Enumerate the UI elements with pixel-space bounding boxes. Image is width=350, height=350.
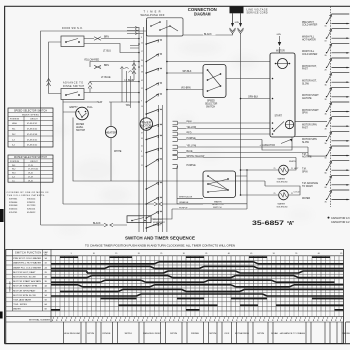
advance to rinse switch SW2 bbox=[61, 89, 84, 100]
svg-text:SWITCH: SWITCH bbox=[206, 107, 215, 109]
svg-text:LT. BLUE: LT. BLUE bbox=[101, 77, 111, 79]
timer terminal dots bbox=[138, 37, 143, 167]
left edge lower mark bbox=[0, 312, 3, 319]
svg-text:SPIN: SPIN bbox=[87, 333, 95, 335]
svg-text:65: 65 bbox=[340, 253, 342, 255]
svg-text:NO.: NO. bbox=[45, 254, 49, 256]
svg-text:POSITION: POSITION bbox=[10, 119, 20, 121]
svg-text:SPIN: SPIN bbox=[125, 333, 133, 335]
wire wls left bbox=[63, 100, 76, 205]
svg-text:17-19: 17-19 bbox=[28, 177, 33, 179]
svg-text:PRE SPOT: PRE SPOT bbox=[302, 22, 314, 24]
svg-text:T.M. AGITATE: T.M. AGITATE bbox=[13, 299, 32, 302]
interval number cells bbox=[56, 311, 340, 317]
wire purple lower bbox=[172, 206, 247, 209]
svg-text:YELLOW: YELLOW bbox=[187, 127, 197, 129]
svg-text:19-42: 19-42 bbox=[28, 173, 33, 175]
svg-text:RINSE SWITCH: RINSE SWITCH bbox=[63, 86, 84, 88]
wire selector right riser bbox=[236, 169, 248, 209]
svg-text:WASH SPEED: WASH SPEED bbox=[22, 113, 39, 116]
wire bundle timer to motor area bbox=[173, 120, 309, 168]
momentary switch bbox=[127, 216, 151, 223]
left edge registration mark bbox=[0, 209, 4, 222]
svg-text:SERVICE CORD: SERVICE CORD bbox=[247, 12, 268, 14]
svg-text:MOTOR HOT, SLOW: MOTOR HOT, SLOW bbox=[13, 277, 36, 279]
svg-text:55: 55 bbox=[295, 253, 297, 255]
svg-text:START: START bbox=[275, 115, 283, 118]
svg-text:45: 45 bbox=[250, 253, 252, 255]
svg-text:4149052: 4149052 bbox=[27, 212, 36, 214]
label + capacitor bbox=[260, 139, 293, 147]
svg-text:SPEED SELECTOR SWITCH: SPEED SELECTOR SWITCH bbox=[14, 110, 47, 112]
svg-text:51: 51 bbox=[141, 145, 143, 147]
note capacitor bbox=[328, 217, 350, 224]
faint scan noise bbox=[49, 41, 312, 247]
timer contact 1A bbox=[302, 14, 349, 28]
door switch SW1 bbox=[61, 36, 84, 47]
wire plug leads with arrows bbox=[231, 13, 242, 27]
svg-text:21: 21 bbox=[291, 168, 293, 170]
svg-text:BRN: BRN bbox=[104, 37, 109, 39]
wire brn upper bbox=[84, 37, 139, 41]
label interval number bbox=[29, 318, 50, 321]
svg-text:20: 20 bbox=[138, 253, 140, 255]
svg-text:POSITION: POSITION bbox=[10, 161, 20, 163]
svg-text:5B: 5B bbox=[325, 158, 327, 160]
svg-text:8: 8 bbox=[141, 151, 142, 153]
svg-text:CIRCUIT: CIRCUIT bbox=[30, 119, 39, 121]
svg-text:BLUE: BLUE bbox=[187, 151, 193, 153]
svg-text:PURPLE: PURPLE bbox=[187, 165, 197, 167]
sequence table frame bbox=[6, 250, 344, 344]
wire solenoid hot return bbox=[288, 158, 296, 171]
svg-text:GRN: GRN bbox=[277, 34, 282, 36]
table header bbox=[9, 251, 49, 292]
svg-text:FULL: FULL bbox=[87, 106, 94, 109]
label water solenoid cold bbox=[277, 203, 289, 209]
svg-text:47-48 47-42: 47-48 47-42 bbox=[27, 123, 37, 125]
svg-text:17-19 19-42: 17-19 19-42 bbox=[28, 169, 38, 171]
svg-text:5: 5 bbox=[71, 253, 72, 255]
wire yellow-red bbox=[84, 60, 139, 67]
label line voltage service cord bbox=[247, 9, 268, 15]
svg-text:WASH FILL: WASH FILL bbox=[302, 50, 315, 53]
svg-text:WASH FILL COLD WATER: WASH FILL COLD WATER bbox=[13, 266, 42, 269]
svg-text:WATER: WATER bbox=[278, 203, 286, 206]
wire motor hot feed bbox=[166, 61, 270, 63]
svg-text:WASH FILL HOT WATER: WASH FILL HOT WATER bbox=[13, 262, 42, 265]
svg-text:MOTOR START SPIN: MOTOR START SPIN bbox=[13, 285, 38, 288]
svg-text:3298211: 3298211 bbox=[27, 202, 36, 204]
svg-text:17: 17 bbox=[141, 51, 143, 53]
svg-text:T.M.: T.M. bbox=[302, 169, 307, 171]
svg-text:CAPACITOR 1/2: CAPACITOR 1/2 bbox=[331, 221, 350, 224]
svg-text:TAN: TAN bbox=[126, 104, 131, 107]
svg-text:SPEED: SPEED bbox=[207, 101, 215, 103]
svg-text:60: 60 bbox=[318, 253, 320, 255]
svg-text:44: 44 bbox=[141, 138, 143, 140]
timer contact 3B bbox=[302, 87, 349, 101]
svg-text:WASH-REGL RESET: WASH-REGL RESET bbox=[143, 332, 162, 335]
svg-text:CAPACITOR 1/3: CAPACITOR 1/3 bbox=[331, 217, 350, 220]
part number 35-6857 A bbox=[252, 220, 295, 227]
svg-text:MOTOR SPIN FAST: MOTOR SPIN FAST bbox=[13, 289, 37, 292]
wire white-blue bbox=[177, 197, 203, 199]
label speed selector switch bbox=[205, 101, 218, 109]
wire solenoid cold return bbox=[265, 181, 300, 195]
wire orn-blk bbox=[240, 97, 270, 100]
timer contact 4B bbox=[302, 117, 349, 131]
svg-text:10: 10 bbox=[93, 253, 95, 255]
svg-text:YELLOW: YELLOW bbox=[187, 146, 197, 148]
label timer wash-push off bbox=[141, 10, 165, 17]
svg-text:MOTOR START: MOTOR START bbox=[302, 109, 319, 112]
svg-text:“A”: “A” bbox=[287, 221, 295, 227]
svg-text:MOTOR SPIN: MOTOR SPIN bbox=[302, 125, 317, 127]
svg-text:RED: RED bbox=[187, 133, 192, 135]
svg-text:T.M.: T.M. bbox=[302, 154, 307, 156]
svg-text:GRN: GRN bbox=[235, 22, 240, 24]
table row lines bbox=[6, 260, 344, 306]
wire brn lower with connector bbox=[84, 65, 139, 92]
svg-text:AGITATE: AGITATE bbox=[302, 97, 312, 100]
svg-text:WH-BLK: WH-BLK bbox=[183, 71, 192, 73]
svg-text:LINE VOLTAGE: LINE VOLTAGE bbox=[247, 9, 268, 12]
svg-text:MOTOR HOT, FAST: MOTOR HOT, FAST bbox=[13, 271, 37, 274]
svg-text:MOMENTARY: MOMENTARY bbox=[153, 221, 166, 224]
timing grid columns bbox=[56, 256, 340, 311]
svg-text:DIAGRAM: DIAGRAM bbox=[194, 12, 211, 18]
timer sequence waveforms bbox=[51, 257, 344, 310]
svg-text:HOT WATER: HOT WATER bbox=[302, 38, 316, 41]
svg-text:SPIN: SPIN bbox=[209, 333, 217, 335]
svg-text:SLOW: SLOW bbox=[302, 142, 310, 144]
svg-text:PURPLE: PURPLE bbox=[187, 138, 197, 140]
svg-text:FAST: FAST bbox=[302, 126, 308, 129]
wire neutral down from plug bbox=[240, 34, 242, 196]
wire rinse sw out bbox=[84, 82, 139, 93]
svg-text:SOLENOID: SOLENOID bbox=[277, 206, 289, 208]
svg-text:WATER SELECTOR SWITCH: WATER SELECTOR SWITCH bbox=[14, 156, 47, 159]
wire solenoid hot feed bbox=[240, 168, 293, 171]
bottom right partial box bbox=[346, 322, 350, 344]
svg-text:19-42: 19-42 bbox=[28, 180, 33, 182]
wire wls bottom bbox=[73, 118, 265, 182]
wire black bottom bbox=[41, 222, 127, 227]
svg-text:3296464: 3296464 bbox=[9, 202, 18, 204]
label advance to rinse switch bbox=[63, 82, 84, 88]
svg-text:3-4: 3-4 bbox=[12, 145, 15, 147]
svg-text:T.M. ADVANCE: T.M. ADVANCE bbox=[302, 182, 318, 185]
svg-text:3260114: 3260114 bbox=[27, 209, 36, 211]
wire yellow-blue drop to tm contact bbox=[308, 147, 327, 156]
svg-text:WATER: WATER bbox=[76, 123, 84, 126]
timer contact bus dashed bbox=[330, 6, 332, 207]
wire solenoid cold feed bbox=[240, 193, 293, 196]
svg-text:3097361: 3097361 bbox=[9, 199, 18, 201]
timer line switch box bbox=[147, 18, 184, 36]
wire door feed bbox=[47, 42, 61, 94]
svg-text:45: 45 bbox=[141, 80, 143, 82]
svg-text:17-19: 17-19 bbox=[28, 165, 33, 167]
timer contact 1B bbox=[302, 29, 349, 43]
svg-text:38: 38 bbox=[141, 71, 143, 73]
svg-text:COLD WATER: COLD WATER bbox=[302, 24, 318, 27]
water selector switch box bbox=[203, 171, 236, 198]
timer contact 6B bbox=[302, 175, 349, 189]
svg-text:COLD: COLD bbox=[294, 191, 300, 193]
svg-text:3B: 3B bbox=[325, 99, 327, 101]
svg-text:TO WASH: TO WASH bbox=[302, 185, 313, 188]
svg-text:WHITE-BLUE: WHITE-BLUE bbox=[179, 197, 193, 199]
timer contact 5B bbox=[302, 146, 349, 160]
svg-text:SELECTOR: SELECTOR bbox=[205, 104, 218, 106]
svg-text:37: 37 bbox=[141, 132, 143, 134]
svg-text:HIGH: HIGH bbox=[12, 123, 17, 125]
svg-text:4314761: 4314761 bbox=[9, 212, 18, 214]
motor M1 box bbox=[270, 53, 295, 137]
timer contact 4A bbox=[302, 102, 349, 116]
svg-text:15: 15 bbox=[115, 253, 117, 255]
svg-text:WHITE: WHITE bbox=[114, 151, 122, 153]
water solenoid hot bbox=[279, 161, 300, 175]
svg-text:HEAT: HEAT bbox=[97, 101, 104, 104]
svg-text:35-6857: 35-6857 bbox=[252, 220, 285, 227]
water selector table bbox=[8, 155, 53, 182]
svg-text:SPIN: SPIN bbox=[170, 333, 178, 335]
svg-text:47-48 47-42: 47-48 47-42 bbox=[27, 145, 37, 147]
svg-text:52: 52 bbox=[141, 88, 143, 90]
timer contact 3A bbox=[302, 73, 349, 87]
svg-text:MID-OF-ST: MID-OF-ST bbox=[153, 219, 164, 221]
svg-text:2-3: 2-3 bbox=[12, 139, 15, 141]
svg-text:MOTOR SPIN: MOTOR SPIN bbox=[302, 139, 317, 141]
label empty / full bbox=[70, 106, 94, 109]
wire orange bbox=[177, 201, 247, 204]
svg-text:AGITATE: AGITATE bbox=[302, 156, 312, 159]
svg-text:1B: 1B bbox=[325, 40, 327, 42]
svg-text:WASH-PUSH OFF: WASH-PUSH OFF bbox=[141, 13, 165, 17]
svg-text:MOTOR HOT,: MOTOR HOT, bbox=[302, 66, 317, 68]
svg-text:MOTOR: MOTOR bbox=[276, 51, 285, 53]
svg-text:16: 16 bbox=[141, 106, 143, 108]
wire wh-blk bbox=[166, 71, 203, 74]
svg-text:WASH FILL: WASH FILL bbox=[302, 36, 315, 39]
wire heat bbox=[63, 100, 139, 126]
svg-text:VIO-BRN: VIO-BRN bbox=[181, 87, 191, 89]
svg-text:LT. BLUE: LT. BLUE bbox=[125, 80, 135, 82]
interval tick strip bbox=[52, 317, 341, 321]
svg-text:SOLENOID: SOLENOID bbox=[277, 181, 289, 183]
svg-text:PAUSE: PAUSE bbox=[342, 332, 350, 335]
title CONNECTION DIAGRAM bbox=[188, 7, 217, 18]
phase separator boxes bbox=[64, 322, 343, 343]
svg-text:2-4: 2-4 bbox=[12, 177, 15, 179]
speed selector switch box bbox=[203, 65, 226, 98]
svg-text:35: 35 bbox=[205, 253, 207, 255]
svg-text:FAST: FAST bbox=[302, 68, 308, 71]
title switch and timer sequence bbox=[125, 236, 195, 241]
timer contact 2A bbox=[302, 43, 349, 57]
svg-text:SWITCH FUNCTION: SWITCH FUNCTION bbox=[15, 253, 41, 255]
svg-text:25: 25 bbox=[274, 168, 276, 170]
phase labels bbox=[64, 332, 350, 335]
svg-text:9: 9 bbox=[141, 100, 142, 102]
svg-text:TIMER CAM: TIMER CAM bbox=[9, 281, 12, 292]
wire capacitor loop bbox=[262, 137, 292, 150]
svg-text:47-48 47-42: 47-48 47-42 bbox=[27, 129, 37, 131]
timer vertical bus lines bbox=[127, 20, 167, 232]
svg-text:EXTRA RINSE: EXTRA RINSE bbox=[235, 332, 250, 335]
svg-text:HEATER: HEATER bbox=[106, 130, 117, 134]
label water selector switch bbox=[212, 200, 224, 209]
svg-text:6B: 6B bbox=[325, 187, 327, 189]
svg-text:PURPLE: PURPLE bbox=[179, 207, 188, 209]
water level switch circle bbox=[76, 107, 89, 120]
speed selector table bbox=[8, 108, 53, 147]
svg-text:RINSE: RINSE bbox=[103, 333, 112, 335]
svg-text:DOOR SW N.O.: DOOR SW N.O. bbox=[62, 28, 83, 30]
svg-text:CIRCUIT: CIRCUIT bbox=[30, 161, 39, 163]
timer contact 7A bbox=[302, 190, 349, 204]
timer contact 2B bbox=[302, 58, 349, 72]
svg-text:47-42 47-48: 47-42 47-48 bbox=[27, 134, 37, 136]
svg-text:25: 25 bbox=[274, 193, 276, 195]
svg-text:THE FOLLOWING PATENTS:: THE FOLLOWING PATENTS: bbox=[7, 194, 45, 197]
svg-text:BRN: BRN bbox=[104, 65, 109, 67]
wire motor to spin contacts bbox=[295, 122, 327, 137]
svg-text:22: 22 bbox=[141, 165, 143, 167]
svg-text:3320348: 3320348 bbox=[9, 205, 18, 207]
svg-text:40: 40 bbox=[228, 253, 230, 255]
svg-text:W-3: W-3 bbox=[12, 173, 15, 175]
wire purple drop bbox=[176, 167, 178, 204]
svg-text:ADVANCE TO: ADVANCE TO bbox=[63, 82, 83, 85]
svg-text:YELLOW-RED: YELLOW-RED bbox=[84, 60, 99, 62]
svg-text:PRE SPOT COLD WATER: PRE SPOT COLD WATER bbox=[13, 257, 42, 260]
svg-text:MOTOR: MOTOR bbox=[141, 124, 152, 127]
svg-text:47-48 47-42: 47-48 47-42 bbox=[27, 139, 37, 141]
svg-text:SWITCH: SWITCH bbox=[153, 225, 161, 227]
wire lower bus with connector bbox=[63, 202, 203, 205]
svg-text:SWITCH: SWITCH bbox=[76, 130, 86, 132]
water solenoid cold bbox=[279, 190, 300, 200]
grid header numbers bbox=[71, 253, 343, 255]
svg-text:30: 30 bbox=[183, 253, 185, 255]
svg-text:WATER: WATER bbox=[278, 178, 286, 181]
svg-text:W-2: W-2 bbox=[12, 134, 15, 136]
svg-text:SELECTOR: SELECTOR bbox=[212, 204, 224, 206]
svg-text:T.M. SPIN: T.M. SPIN bbox=[13, 304, 27, 306]
svg-text:W-1: W-1 bbox=[12, 165, 15, 167]
subtitle timer instructions bbox=[85, 243, 235, 247]
timer cam contacts bbox=[146, 39, 162, 229]
svg-text:COLD WATER: COLD WATER bbox=[302, 53, 318, 56]
heater motor circle bbox=[105, 126, 116, 137]
svg-text:MOTOR START: MOTOR START bbox=[302, 94, 319, 97]
svg-text:HIGH REGULAR: HIGH REGULAR bbox=[64, 332, 81, 335]
ground grn arrow to motor bbox=[276, 34, 285, 53]
label door sw n.o. bbox=[62, 28, 83, 30]
svg-text:LT. BLU: LT. BLU bbox=[103, 51, 111, 53]
svg-text:BLACK: BLACK bbox=[93, 222, 101, 225]
svg-text:15: 15 bbox=[141, 156, 143, 158]
table row labels bbox=[13, 257, 47, 311]
svg-text:3361514: 3361514 bbox=[27, 199, 36, 201]
svg-text:WATER: WATER bbox=[302, 197, 310, 200]
svg-text:ORN-BLK: ORN-BLK bbox=[248, 97, 259, 99]
svg-text:3: 3 bbox=[141, 37, 142, 39]
svg-text:3340514: 3340514 bbox=[9, 209, 18, 211]
label mid-of-st momentary switch bbox=[153, 219, 166, 227]
svg-text:RINSE: RINSE bbox=[191, 333, 200, 335]
label water level switch bbox=[76, 123, 86, 132]
wire vertical drops left of timer bbox=[120, 66, 134, 108]
svg-text:EMPTY: EMPTY bbox=[70, 106, 79, 109]
svg-text:COVERED BY ONE OR MORE OF: COVERED BY ONE OR MORE OF bbox=[7, 192, 50, 194]
svg-text:LEVEL: LEVEL bbox=[76, 127, 84, 129]
wire black top bbox=[183, 32, 233, 36]
svg-text:INTERVAL NUMBER: INTERVAL NUMBER bbox=[29, 318, 50, 321]
svg-text:SWITCH: SWITCH bbox=[213, 207, 222, 209]
svg-text:W-1: W-1 bbox=[12, 129, 15, 131]
svg-text:WATER: WATER bbox=[13, 308, 21, 311]
svg-text:2B: 2B bbox=[325, 70, 327, 72]
wire momentary riser bbox=[151, 209, 172, 219]
wire speed sw to motor bbox=[226, 78, 270, 80]
wire left bus top bbox=[41, 31, 147, 225]
svg-text:SPIN: SPIN bbox=[302, 113, 308, 115]
svg-text:MOTOR START AGITATE: MOTOR START AGITATE bbox=[13, 280, 42, 283]
service cord plug bbox=[230, 6, 244, 13]
svg-text:25: 25 bbox=[160, 253, 162, 255]
wire lt.blu bbox=[84, 44, 139, 53]
timer motor TM bbox=[140, 118, 152, 130]
wire heater bottom white bbox=[111, 138, 122, 181]
svg-text:SOAK - ADVANCE TO WASH: SOAK - ADVANCE TO WASH bbox=[271, 332, 306, 335]
label water solenoid hot bbox=[277, 178, 289, 184]
timer contact 5A bbox=[302, 131, 349, 145]
wire vio-brn bbox=[166, 87, 203, 90]
svg-text:4B: 4B bbox=[325, 128, 327, 130]
svg-text:MOTOR HOT,: MOTOR HOT, bbox=[302, 81, 317, 83]
svg-text:BLACK: BLACK bbox=[204, 33, 212, 36]
svg-text:WATER: WATER bbox=[214, 200, 222, 203]
svg-text:WHITE: WHITE bbox=[289, 161, 296, 163]
connector junctions bbox=[230, 28, 244, 34]
svg-text:SLOW: SLOW bbox=[302, 83, 310, 85]
svg-text:50: 50 bbox=[273, 253, 275, 255]
timer top feeder stubs bbox=[127, 28, 144, 49]
svg-text:10: 10 bbox=[141, 42, 143, 44]
svg-text:3127293: 3127293 bbox=[27, 205, 36, 207]
svg-text:W-2: W-2 bbox=[12, 169, 15, 171]
svg-text:24: 24 bbox=[141, 60, 143, 62]
svg-text:31: 31 bbox=[141, 65, 143, 67]
patent note text bbox=[7, 192, 50, 214]
timer contact 6A bbox=[302, 161, 349, 175]
svg-text:SPIN: SPIN bbox=[302, 171, 308, 173]
svg-text:MOTOR SPIN SLOW: MOTOR SPIN SLOW bbox=[13, 295, 36, 297]
svg-text:SPIN: SPIN bbox=[257, 333, 265, 335]
svg-text:SWITCH AND TIMER SEQUENCE: SWITCH AND TIMER SEQUENCE bbox=[125, 236, 195, 241]
